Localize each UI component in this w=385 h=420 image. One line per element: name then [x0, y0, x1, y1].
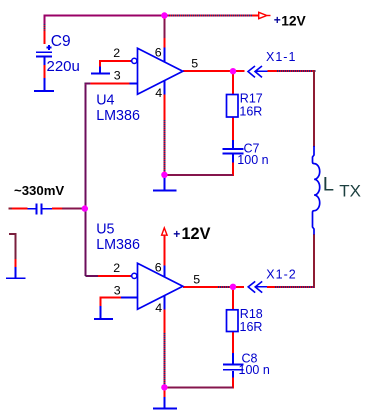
- capacitor C7: [223, 148, 244, 150]
- wire floating source ground stub: [9, 233, 17, 235]
- wire input cap to node: [52, 208, 62, 210]
- wire U5 pin4: [163, 296, 165, 309]
- capacitor C8: [223, 363, 244, 365]
- svg-text:2: 2: [113, 46, 120, 60]
- node junction C7 ground: [161, 172, 167, 178]
- svg-text:R17: R17: [240, 92, 263, 106]
- ground U4 pin2: [91, 72, 110, 74]
- svg-text:X1-1: X1-1: [266, 50, 296, 64]
- svg-text:X1-2: X1-2: [266, 267, 296, 281]
- svg-text:16R: 16R: [240, 320, 263, 334]
- node junction top rail: [161, 12, 167, 18]
- wire R18 bottom to C8: [232, 332, 234, 354]
- node junction C8 ground: [161, 384, 167, 390]
- svg-text:12V: 12V: [182, 225, 211, 243]
- svg-text:100n: 100n: [237, 153, 268, 167]
- svg-text:16R: 16R: [239, 105, 262, 119]
- wire R17 bottom to C7: [232, 117, 234, 140]
- wire U4 pin3: [84, 83, 90, 85]
- wire ground stem U4: [163, 175, 165, 190]
- wire C8 ground horizontal: [164, 386, 233, 388]
- capacitor input ~330mV: [28, 208, 36, 210]
- svg-text:12V: 12V: [281, 13, 306, 28]
- svg-text:6: 6: [155, 261, 162, 275]
- wire C9 bottom leads: [44, 57, 46, 65]
- wire U5 pin6 from arrow: [163, 236, 165, 266]
- wire +12V top rail dashed part: [165, 15, 252, 17]
- svg-text:C9: C9: [51, 33, 71, 50]
- connector X1-1: [248, 66, 255, 77]
- wire C8 bottom: [232, 371, 234, 378]
- svg-text:+: +: [173, 227, 180, 241]
- svg-text:3: 3: [114, 284, 121, 298]
- ground U4 pin4: [153, 189, 177, 191]
- wire input net vertical: [84, 84, 86, 276]
- wire U5 pin2: [85, 275, 98, 277]
- wire input left stub: [8, 208, 12, 210]
- wire C9 top vertical: [44, 15, 46, 25]
- wire to +12V arrow: [252, 15, 259, 17]
- node junction U4 output: [230, 68, 236, 74]
- wire U5 pin3 to ground: [100, 297, 121, 299]
- svg-text:4: 4: [155, 86, 162, 100]
- wire TX net right vertical top: [313, 70, 315, 147]
- svg-text:3: 3: [114, 69, 121, 83]
- ground U5 pin4: [153, 407, 177, 409]
- svg-text:100n: 100n: [239, 363, 270, 377]
- svg-text:+: +: [274, 13, 281, 27]
- wire U4 pin6: [163, 16, 165, 39]
- ground U5 pin3: [94, 318, 113, 320]
- svg-text:6: 6: [155, 46, 162, 60]
- capacitor C9: [47, 47, 52, 49]
- svg-text:TX: TX: [339, 182, 361, 201]
- connector X1-2: [248, 281, 255, 292]
- svg-text:LM386: LM386: [96, 108, 140, 124]
- wire C7 bottom: [232, 155, 234, 163]
- svg-text:5: 5: [191, 56, 198, 70]
- wire U4 output pin5: [183, 70, 233, 72]
- svg-text:220u: 220u: [47, 58, 80, 75]
- svg-text:2: 2: [113, 261, 120, 275]
- op-amp U4: [138, 48, 183, 94]
- op-amp U5: [138, 263, 183, 309]
- wire R18 top: [232, 287, 234, 310]
- svg-text:5: 5: [193, 273, 200, 287]
- wire +12V top rail solid: [44, 15, 165, 17]
- svg-text:U4: U4: [96, 93, 114, 109]
- node junction U5 output: [230, 284, 236, 290]
- resistor R18: [227, 310, 239, 332]
- ground C9: [34, 90, 54, 92]
- ground floating source: [6, 277, 25, 279]
- wire X1-2 row: [233, 286, 244, 288]
- svg-text:LM386: LM386: [96, 237, 140, 253]
- wire X1-1 right: [267, 70, 277, 72]
- U4 pin2 bubble: [132, 58, 137, 63]
- inductor L TX: [313, 146, 320, 235]
- wire TX net right vertical bottom: [313, 234, 315, 288]
- svg-text:~330mV: ~330mV: [14, 183, 64, 198]
- resistor R17: [227, 95, 239, 118]
- wire X1-1 left: [233, 70, 245, 72]
- node junction input: [82, 205, 88, 211]
- svg-text:4: 4: [155, 301, 162, 315]
- power arrow +12V U5: [162, 228, 168, 235]
- U5 pin2 bubble: [132, 273, 137, 278]
- svg-text:R18: R18: [240, 307, 263, 321]
- wire U4 pin4: [163, 81, 165, 94]
- wire U4 pin2 to ground: [100, 60, 130, 62]
- wire U5 output pin5: [183, 286, 218, 288]
- svg-text:L: L: [323, 173, 334, 195]
- wire R17 top: [232, 71, 234, 94]
- wire ground stem U5: [163, 387, 165, 397]
- power arrow +12V top: [259, 12, 267, 18]
- wire C7 ground horizontal: [164, 174, 233, 176]
- svg-text:U5: U5: [96, 222, 114, 238]
